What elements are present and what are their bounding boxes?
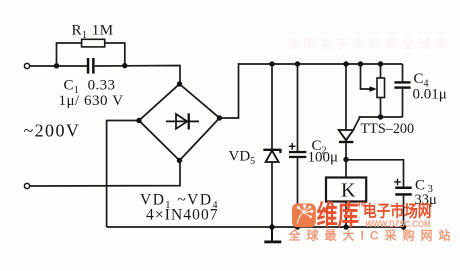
node R2 top [378, 61, 383, 66]
label C4 [414, 71, 429, 90]
ground [264, 227, 281, 243]
label C1 0.33 [64, 78, 116, 97]
node gate / R2 bottom [378, 114, 383, 119]
label VD1-VD4 [140, 192, 219, 212]
node bridge bottom vertex [177, 158, 182, 163]
watermark slogan row [288, 228, 457, 243]
node bridge top vertex [177, 81, 182, 86]
label R1 1M [72, 23, 114, 42]
node R1 right junction [122, 63, 127, 68]
wire bridge right vertex to DC+ rail [220, 64, 403, 118]
node C2 bottom [295, 224, 300, 229]
wire AC bottom line [30, 161, 180, 187]
label 100u [308, 150, 339, 166]
svg-text:1μ/ 630 V: 1μ/ 630 V [59, 93, 124, 109]
terminal bottom-left input [24, 183, 29, 188]
capacitor C2 [289, 64, 306, 227]
svg-text:4×IN4007: 4×IN4007 [146, 207, 219, 224]
label VD5 [229, 149, 256, 168]
label C2 [312, 138, 327, 157]
wire cathode to C3 branch [346, 160, 404, 187]
label C3 [415, 178, 433, 196]
node bridge left vertex [136, 118, 141, 123]
node VD5 bottom / ground junction [269, 224, 274, 229]
wire bridge left vertex to bottom rail [107, 121, 139, 228]
relay K [326, 160, 366, 228]
watermark www.dzsc.com [366, 219, 431, 230]
node C2 top [295, 61, 300, 66]
watermark dianzishichangwang [363, 201, 431, 220]
label 33u [415, 192, 438, 208]
node C3 bottom [401, 224, 406, 229]
svg-text:全球最大IC采购网站: 全球最大IC采购网站 [288, 228, 457, 243]
wire gate line [359, 116, 403, 118]
svg-text:维库电子市场网全球采: 维库电子市场网全球采 [287, 36, 452, 51]
node arrow branch top [358, 61, 363, 66]
wire bottom rail [107, 226, 405, 228]
resistor R2 adjustable [377, 64, 385, 117]
label 4xIN4007 [146, 207, 219, 224]
diode VD5 [263, 64, 280, 227]
watermark weiku text [317, 200, 367, 231]
label 1u/630V [59, 93, 124, 109]
node top-left junction [54, 63, 59, 68]
node K bottom [343, 224, 348, 229]
node VD5 top [269, 61, 274, 66]
diode inside bridge [166, 113, 199, 129]
svg-text:0.01μ: 0.01μ [413, 87, 447, 103]
svg-text:~200V: ~200V [24, 121, 81, 141]
wire AC top line [30, 66, 180, 85]
svg-text:K: K [341, 180, 356, 202]
resistor R1 [82, 39, 105, 47]
wire R1 branch [57, 43, 125, 66]
label TTS-200 [361, 121, 415, 137]
watermark logo [292, 204, 316, 228]
svg-text:R1 1M: R1 1M [72, 23, 114, 42]
svg-text:维库: 维库 [317, 200, 359, 231]
node SCR cathode junction [343, 157, 348, 162]
capacitor C4 [394, 64, 410, 117]
svg-text:电子市场网: 电子市场网 [363, 201, 431, 220]
label 0.01u [413, 87, 447, 103]
thyristor TTS-200 [339, 64, 360, 160]
bridge rectifier VD1-VD4 diamond [139, 84, 220, 161]
wire wiper arrow branch [361, 64, 377, 92]
capacitor C3 [394, 179, 411, 227]
label ~200V [24, 121, 81, 141]
node bridge right vertex [217, 115, 222, 120]
terminal top-left input [24, 63, 29, 68]
node SCR anode top [343, 61, 348, 66]
svg-text:TTS–200: TTS–200 [361, 121, 415, 137]
capacitor C1 [87, 58, 95, 74]
faint top watermark [287, 36, 452, 51]
svg-text:100μ: 100μ [308, 150, 339, 166]
